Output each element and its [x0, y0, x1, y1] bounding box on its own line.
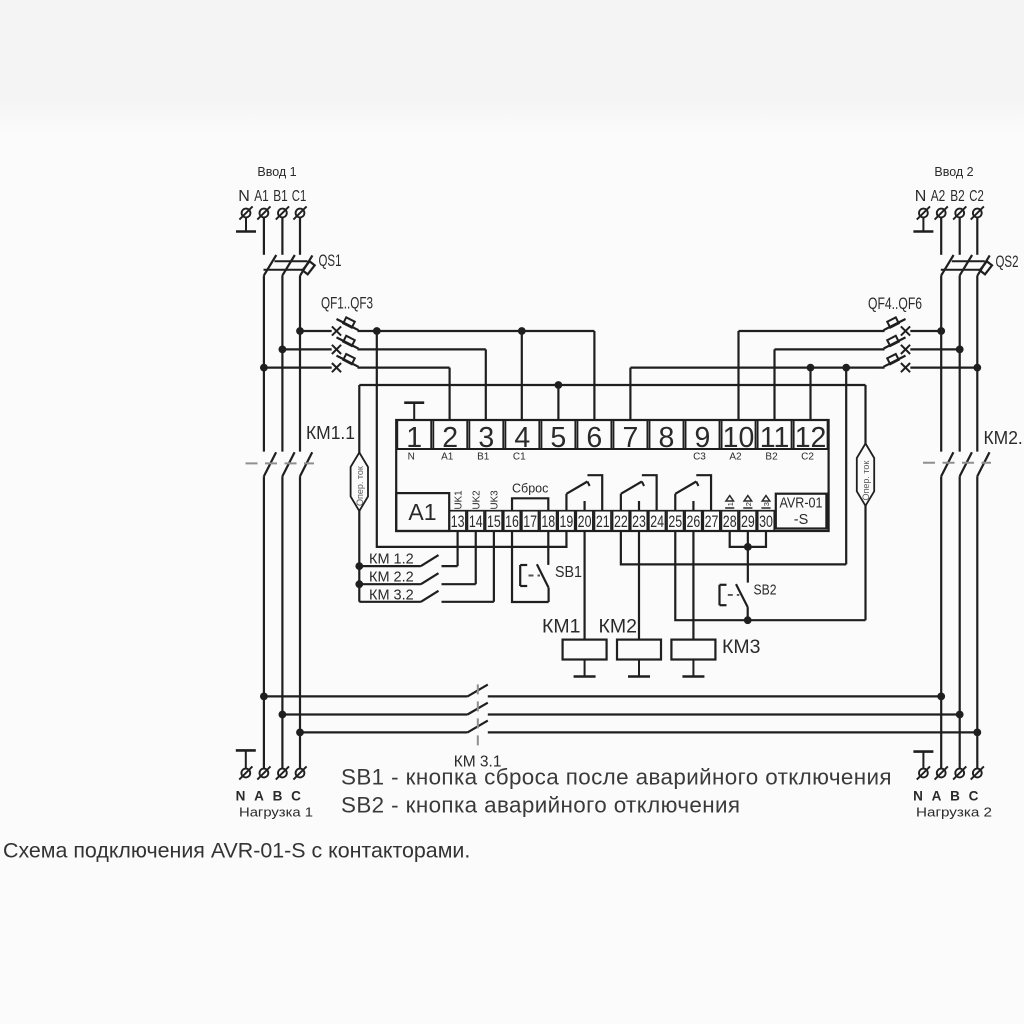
svg-text:13: 13 [451, 512, 465, 531]
reset bracket terminals 16-18 [512, 498, 548, 510]
relay contact group 25-27 [675, 475, 711, 511]
junction A2/QF4 [937, 327, 945, 335]
svg-text:КМ1: КМ1 [542, 616, 580, 638]
svg-text:A1: A1 [408, 499, 436, 525]
junction bus A right [937, 693, 945, 701]
svg-text:6: 6 [586, 422, 602, 454]
neutral T below coil KM3 [682, 660, 704, 677]
svg-text:C2: C2 [969, 188, 984, 205]
svg-text:UK1: UK1 [453, 490, 464, 509]
svg-text:B1: B1 [477, 452, 490, 463]
wire QF6 to block terminal 12 [809, 368, 811, 420]
wire KM1.1 pole B down to bus [281, 476, 283, 768]
neutral T below coil KM2 [628, 660, 650, 677]
svg-text:23: 23 [632, 512, 646, 531]
junction QF1 terminal 4 [518, 327, 526, 335]
svg-text:SB2 - кнопка аварийного отклю: SB2 - кнопка аварийного отключения [341, 793, 740, 818]
junction bus A left [260, 693, 268, 701]
bus phase B right segment [488, 713, 960, 715]
svg-text:15: 15 [487, 512, 501, 531]
svg-text:1: 1 [406, 422, 422, 454]
wire QF6 op-feed down [845, 368, 847, 565]
svg-text:A2: A2 [729, 452, 742, 463]
contact KM3.1 pole B [468, 703, 488, 715]
wire terminal 29 stub [747, 531, 749, 547]
svg-text:КМ2: КМ2 [599, 616, 637, 638]
svg-text:3: 3 [478, 422, 494, 454]
svg-text:8: 8 [659, 422, 675, 454]
neutral T symbol above terminal 1 [404, 403, 424, 420]
wire A2 phase QS2 down to KM2.1 [940, 275, 942, 451]
junction top rail terminal 5 [555, 381, 563, 389]
svg-text:20: 20 [578, 512, 592, 531]
terminal A1 [257, 206, 270, 219]
svg-text:B: B [273, 789, 283, 804]
svg-text:-S: -S [794, 512, 809, 528]
junction jumper terminal 29 [744, 543, 752, 551]
junction op wire KM2.2 [355, 580, 363, 588]
svg-text:2: 2 [744, 502, 753, 506]
wire terminal 23 to coil KM2 [638, 531, 640, 640]
svg-text:A1: A1 [254, 188, 269, 205]
wire QF6 to block terminal 7 [629, 368, 631, 420]
wire A2 to QS2 [940, 218, 942, 255]
neutral T below coil KM1 [574, 660, 596, 677]
wire op current left drop [358, 385, 360, 602]
terminal B1 [276, 206, 289, 219]
svg-text:27: 27 [705, 512, 719, 531]
wire QF3 to block terminal 2 [449, 368, 451, 420]
circuit breaker QF1 (row C1) [300, 317, 377, 335]
bus phase A left segment [264, 695, 468, 697]
svg-text:A: A [932, 789, 942, 804]
wire B2 to QS2 [959, 218, 961, 255]
svg-text:18: 18 [541, 512, 555, 531]
junction SB2 bottom [744, 616, 752, 624]
terminal load1 A [257, 766, 270, 779]
svg-text:N: N [236, 789, 246, 804]
wire QF4 to block terminal 10 [737, 331, 739, 420]
wire terminal 16 to SB1 [512, 531, 549, 602]
svg-text:3: 3 [762, 502, 771, 506]
wire KM2.1 pole B down to bus [959, 476, 961, 768]
terminal load2 B [953, 766, 966, 779]
svg-text:КМ2.1: КМ2.1 [984, 428, 1024, 448]
svg-text:19: 19 [560, 512, 574, 531]
svg-text:Ввод 2: Ввод 2 [934, 165, 973, 179]
svg-text:C1: C1 [292, 188, 307, 205]
terminal B2 [953, 206, 966, 219]
svg-text:QF1..QF3: QF1..QF3 [321, 295, 373, 313]
junction QF6 op-feed [842, 364, 850, 372]
wire B2 phase QS2 down to KM2.1 [959, 275, 961, 451]
terminal load1 N [239, 766, 252, 779]
svg-text:AVR-01: AVR-01 [780, 496, 823, 512]
svg-text:Опер. ток: Опер. ток [861, 461, 871, 501]
wire KM1.1 pole A down to bus [263, 476, 265, 768]
ground symbol input 1 N [236, 218, 256, 232]
svg-text:12: 12 [795, 422, 827, 454]
aux contact KM2.2 [359, 573, 475, 584]
wire QF6 op-feed to terminal 22 [621, 531, 846, 564]
svg-text:C3: C3 [693, 452, 706, 463]
coil KM3 [671, 640, 715, 660]
wire KM3.2 to terminal 15 [493, 531, 495, 602]
circuit breaker QF4 (row A2) [739, 317, 942, 335]
svg-text:11: 11 [760, 422, 790, 454]
svg-text:C2: C2 [801, 452, 814, 463]
svg-text:N: N [408, 452, 415, 463]
wire B1 phase QS1 down to KM1.1 [281, 275, 283, 451]
svg-text:Нагрузка 2: Нагрузка 2 [916, 805, 992, 820]
contactor contacts KM1.1 [264, 452, 312, 476]
wire QF2 to block terminal 3 [485, 349, 487, 420]
bus phase C right segment [488, 731, 978, 733]
pushbutton SB2 [720, 584, 748, 620]
linkage dashes KM2.1 [923, 462, 991, 464]
junction bus C right [973, 729, 981, 737]
svg-text:C1: C1 [513, 452, 526, 463]
label I1 (rotated) above terminal 28 [725, 496, 735, 508]
svg-text:B2: B2 [950, 188, 965, 205]
wire operating current top rail [359, 384, 865, 386]
circuit breaker QF6 (row C2) [630, 354, 977, 372]
terminal cells 1-12 separators [396, 420, 828, 449]
svg-text:4: 4 [514, 422, 530, 454]
svg-text:QS1: QS1 [319, 252, 342, 270]
svg-text:2: 2 [442, 422, 458, 454]
contactor contacts KM2.1 [941, 452, 989, 476]
terminal strip 13-30 cells [449, 511, 774, 531]
terminal load2 N [917, 766, 930, 779]
wire QF1 op-feed down and to terminal 19 [377, 331, 567, 547]
wire terminal 20 to coil KM1 [583, 531, 585, 640]
terminal load1 C [293, 766, 306, 779]
badge Опер.ток left [351, 453, 368, 512]
svg-text:24: 24 [650, 512, 664, 531]
terminal load2 A [935, 766, 948, 779]
relay contact group 19-21 [566, 475, 602, 511]
wire B1 to QS1 [281, 218, 283, 255]
junction bus C left [296, 729, 304, 737]
wire op current right drop [864, 385, 866, 620]
ground symbol input 2 N [913, 218, 933, 232]
svg-text:25: 25 [668, 512, 682, 531]
switch-disconnector QS2 [941, 255, 992, 276]
wire KM2.1 pole C down to bus [976, 476, 978, 768]
neutral T above load 2 N [913, 752, 933, 769]
wire QF5 to block terminal 11 [773, 349, 775, 420]
aux contact KM1.2 [359, 555, 457, 566]
terminal load2 C [971, 766, 984, 779]
svg-text:28: 28 [723, 512, 737, 531]
svg-text:B: B [950, 789, 960, 804]
label I2 (rotated) above terminal 29 [743, 496, 753, 508]
module AVR-01-S box [776, 494, 827, 529]
wire terminal 26 to coil KM3 [692, 531, 694, 640]
wire KM1.1 pole C down to bus [299, 476, 301, 768]
svg-text:КМ 3.2: КМ 3.2 [369, 588, 414, 604]
wire KM1.2 to terminal 13 [457, 531, 459, 566]
wire QF1 to block terminal 4 [521, 331, 523, 420]
wire top rail to terminal 5 [557, 385, 559, 420]
svg-text:Сброс: Сброс [512, 482, 548, 496]
wire terminal 18 to SB1 [547, 531, 549, 565]
svg-text:SB1 - кнопка сброса после авар: SB1 - кнопка сброса после аварийного отк… [341, 765, 892, 790]
bus phase C left segment [300, 731, 468, 733]
svg-text:КМ 1.2: КМ 1.2 [369, 552, 414, 568]
circuit breaker QF3 (row A1) [264, 354, 450, 372]
svg-text:КМ1.1: КМ1.1 [306, 423, 355, 443]
wire terminals 28-30 jumper [730, 531, 766, 547]
coil KM1 [563, 640, 607, 660]
device block AVR-01-S outline [396, 420, 828, 531]
svg-text:A: A [254, 789, 264, 804]
svg-text:КМ 2.2: КМ 2.2 [369, 570, 414, 586]
junction op wire KM1.2 [355, 562, 363, 570]
svg-text:7: 7 [622, 422, 638, 454]
module A1 box [396, 493, 449, 531]
junction C1/QF1 [296, 327, 304, 335]
svg-text:B1: B1 [273, 188, 288, 205]
bus phase A right segment [488, 695, 941, 697]
terminal N input 2 [917, 206, 930, 219]
switch-disconnector QS1 [264, 255, 315, 276]
terminal C1 [293, 206, 306, 219]
linkage dashes KM3.1 [477, 684, 479, 748]
wire KM2.2 to terminal 14 [475, 531, 477, 584]
svg-text:SB2: SB2 [754, 583, 777, 599]
svg-text:17: 17 [523, 512, 537, 531]
bus phase B left segment [282, 713, 467, 715]
svg-text:21: 21 [596, 512, 610, 531]
junction C2/QF6 [973, 364, 981, 372]
wire C2 phase QS2 down to KM2.1 [976, 276, 978, 452]
svg-text:10: 10 [723, 422, 755, 454]
svg-text:C: C [291, 789, 301, 804]
svg-text:9: 9 [695, 422, 711, 454]
svg-text:14: 14 [469, 512, 483, 531]
terminal C2 [971, 206, 984, 219]
relay contact group 22-24 [621, 475, 657, 511]
wire C1 phase QS1 down to KM1.1 [299, 276, 301, 452]
junction bus B left [279, 711, 287, 719]
label I3 (rotated) above terminal 30 [761, 496, 771, 508]
svg-text:30: 30 [759, 512, 773, 531]
svg-text:QS2: QS2 [996, 253, 1019, 271]
circuit breaker QF5 (row B2) [775, 336, 960, 354]
svg-text:N: N [913, 789, 923, 804]
svg-text:Опер. ток: Опер. ток [355, 466, 365, 506]
contact KM3.1 pole C [468, 721, 488, 733]
svg-text:26: 26 [687, 512, 701, 531]
wire KM2.1 pole A down to bus [940, 476, 942, 768]
svg-text:A2: A2 [931, 188, 946, 205]
badge Опер.ток right [857, 444, 874, 506]
svg-text:Нагрузка 1: Нагрузка 1 [239, 805, 313, 820]
svg-text:29: 29 [741, 512, 755, 531]
circuit breaker QF2 (row B1) [282, 336, 485, 354]
svg-text:SB1: SB1 [555, 564, 582, 581]
wire A1 phase QS1 down to KM1.1 [263, 275, 265, 451]
aux contact KM3.2 [359, 591, 494, 602]
terminal load1 B [276, 766, 289, 779]
junction bus B right [956, 711, 964, 719]
svg-text:N: N [915, 188, 927, 205]
wire jumper down to SB2 [747, 547, 749, 583]
svg-text:Ввод 1: Ввод 1 [257, 165, 296, 179]
neutral T above load 1 N [236, 750, 256, 768]
svg-text:UK3: UK3 [490, 490, 501, 510]
junction B2/QF5 [956, 346, 964, 354]
svg-text:22: 22 [614, 512, 628, 531]
wire QF1 out to terminal 4 and 6 [377, 330, 595, 332]
wire C2 to QS2 [976, 218, 978, 255]
terminal N input 1 [239, 206, 252, 219]
linkage dashes KM1.1 [246, 462, 315, 464]
svg-text:A1: A1 [441, 452, 454, 463]
wire A1 to QS1 [263, 218, 265, 255]
svg-text:B2: B2 [765, 452, 778, 463]
svg-text:1: 1 [726, 502, 735, 506]
junction B1/QF2 [279, 346, 287, 354]
svg-text:C: C [969, 789, 979, 804]
pushbutton SB1 [520, 564, 548, 602]
svg-text:КМ3: КМ3 [722, 636, 760, 658]
contact KM3.1 pole A [468, 685, 488, 697]
svg-text:5: 5 [550, 422, 566, 454]
svg-text:Схема подключения AVR-01-S с к: Схема подключения AVR-01-S с контакторам… [3, 839, 470, 863]
svg-text:N: N [238, 188, 250, 205]
wire terminal 25 to SB2 rail [675, 531, 865, 620]
junction QF1 op-feed [373, 327, 381, 335]
terminal A2 [935, 206, 948, 219]
svg-text:16: 16 [505, 512, 519, 531]
svg-text:UK2: UK2 [472, 490, 483, 509]
svg-text:QF4..QF6: QF4..QF6 [868, 295, 922, 313]
coil KM2 [617, 640, 661, 660]
junction QF6 terminal 12 [807, 364, 815, 372]
wire C1 to QS1 [299, 218, 301, 255]
wire QF1 to block terminal 6 [593, 331, 595, 420]
junction A1/QF3 [260, 364, 268, 372]
